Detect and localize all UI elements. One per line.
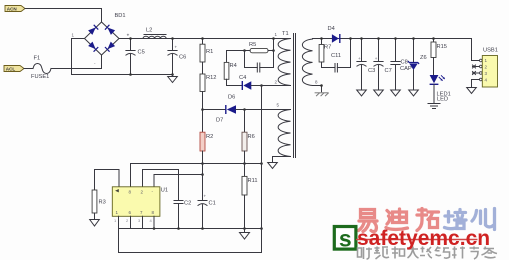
ground below bus1 xyxy=(240,229,250,240)
wire ACL to fuse xyxy=(24,68,33,70)
bus2 return loop xyxy=(119,229,262,253)
transformer T1 primary winding xyxy=(278,39,290,86)
svg-text:R2: R2 xyxy=(206,134,213,140)
junction R5 right xyxy=(272,49,275,52)
snubber resistor R4 xyxy=(224,51,244,80)
svg-text:C5: C5 xyxy=(138,50,145,56)
wire line2 U1 pin to C2 xyxy=(143,170,179,201)
svg-text:D7: D7 xyxy=(216,118,223,124)
secondary top lead to rail2 xyxy=(313,38,472,41)
svg-text:R1: R1 xyxy=(206,49,213,55)
clamp diode C4 wire xyxy=(227,79,243,85)
snubber resistor R7 xyxy=(319,39,331,63)
ground below aux winding xyxy=(268,163,278,169)
ground below C6 xyxy=(168,75,178,83)
svg-text:CAP: CAP xyxy=(400,66,412,72)
svg-text:ACN: ACN xyxy=(7,6,18,11)
svg-text:R5: R5 xyxy=(249,42,256,48)
svg-text:C1: C1 xyxy=(209,201,216,207)
bridge diode bottom-left xyxy=(88,41,98,51)
port ACL xyxy=(4,66,24,72)
svg-text:+: + xyxy=(127,33,130,38)
bus1 ground wire xyxy=(119,228,262,230)
svg-text:C4: C4 xyxy=(239,75,246,81)
bridge rectifier BD1 diamond xyxy=(85,22,120,55)
transformer T1 secondary winding xyxy=(302,39,312,86)
capacitor C1 xyxy=(198,194,216,229)
wire R15 to LED xyxy=(433,58,435,76)
watermark big text yidituo xyxy=(359,209,439,232)
transformer core xyxy=(293,34,295,158)
wire USB pin4 to ground xyxy=(472,80,473,88)
no-connect marks xyxy=(473,65,476,75)
svg-text:C6: C6 xyxy=(179,55,186,61)
port ACN xyxy=(5,6,25,12)
wire line3 U1 pin to C1 xyxy=(154,175,203,188)
svg-text:R7: R7 xyxy=(324,45,331,51)
ground below C7 xyxy=(374,90,384,96)
svg-text:C2: C2 xyxy=(184,201,191,207)
junction C5 top xyxy=(129,37,132,40)
wire R2 to C1 xyxy=(202,151,204,201)
junction snubber at rail xyxy=(272,37,275,40)
wire DC plus rail xyxy=(119,38,291,40)
svg-text:Z6: Z6 xyxy=(420,55,427,61)
junction bus1 pins xyxy=(153,227,156,230)
zener Z6 xyxy=(408,39,427,91)
bridge diode top-right xyxy=(105,25,115,35)
capacitor C2 xyxy=(174,201,191,229)
junction right vertical top xyxy=(260,84,263,87)
svg-text:safetyemc.cn: safetyemc.cn xyxy=(357,227,490,250)
output diode D4 xyxy=(328,26,340,43)
secondary bottom lead xyxy=(313,86,322,92)
clamp diode C4 xyxy=(239,75,251,90)
earth ground secondary xyxy=(315,93,329,96)
output capacitor C7 xyxy=(374,39,392,91)
svg-text:+: + xyxy=(204,194,207,199)
resistor R2 (red) xyxy=(200,132,213,151)
resistor R3 xyxy=(92,190,106,213)
svg-text:U1: U1 xyxy=(161,188,168,194)
wire D7 to aux winding xyxy=(236,109,291,111)
svg-text:D6: D6 xyxy=(228,95,235,101)
svg-text:s: s xyxy=(339,225,352,251)
svg-text:+: + xyxy=(358,56,361,61)
ground below Z6 xyxy=(409,90,419,96)
LED LED1 xyxy=(430,75,451,103)
transformer T1 aux winding xyxy=(278,110,290,157)
aux winding to ground xyxy=(273,157,291,163)
fuse F1 FUSE1 xyxy=(31,56,51,81)
ground below C3 xyxy=(357,90,367,96)
capacitor C5 xyxy=(126,33,145,75)
wire LED to ground xyxy=(433,84,435,103)
diode D7 xyxy=(216,95,236,124)
svg-text:R11: R11 xyxy=(248,178,258,184)
ground below R3 xyxy=(90,213,100,226)
snubber capacitor xyxy=(245,39,274,73)
USB pin stubs xyxy=(473,66,480,68)
junction R7 top xyxy=(320,37,323,40)
IC U1 xyxy=(112,187,168,217)
junction line1 x202 xyxy=(201,162,204,165)
svg-text:R15: R15 xyxy=(437,44,447,50)
junction secondary bottom xyxy=(320,84,323,87)
svg-text:D4: D4 xyxy=(328,26,335,32)
capacitor C6 xyxy=(168,39,186,75)
output capacitor C3 xyxy=(357,39,375,91)
snubber resistor R5 xyxy=(245,42,274,53)
ground below USB xyxy=(467,88,477,94)
wire R6 to line1 xyxy=(244,151,246,176)
junction C6 top xyxy=(171,37,174,40)
bridge diode bottom-right xyxy=(105,41,115,51)
svg-text:F1: F1 xyxy=(34,56,41,62)
resistor R15 xyxy=(431,39,447,58)
USB pin circles xyxy=(480,59,483,81)
output capacitor C8 xyxy=(391,39,412,91)
svg-text:R6: R6 xyxy=(248,134,255,140)
wire rail2 to USB xyxy=(472,39,480,61)
wire fuse to bridge bottom xyxy=(51,55,102,69)
svg-text:T1: T1 xyxy=(282,31,289,37)
resistor R12 xyxy=(200,74,216,92)
junction C6 bottom xyxy=(171,73,174,76)
inductor L2 xyxy=(143,28,166,39)
junction R5 left xyxy=(243,49,246,52)
junction D7 wire at R6 column xyxy=(243,108,246,111)
svg-text:ACL: ACL xyxy=(6,66,16,71)
wire ACN to bridge top xyxy=(25,9,102,23)
USB connector USB1 xyxy=(482,48,498,88)
wire line1 U1 pin to right vertical xyxy=(131,164,262,188)
svg-text:BD1: BD1 xyxy=(115,13,126,19)
svg-text:C11: C11 xyxy=(331,53,341,59)
resistor R11 xyxy=(242,176,258,195)
bridge diode top-left xyxy=(88,25,98,35)
wire bridge left corner to minus bus xyxy=(72,39,173,75)
svg-text:L2: L2 xyxy=(146,28,152,34)
svg-text:+: + xyxy=(175,45,178,50)
watermark safetyemc logo xyxy=(334,227,356,250)
svg-text:R4: R4 xyxy=(230,63,237,69)
right vertical drop xyxy=(261,86,263,253)
junction D7 wire left xyxy=(201,108,204,111)
watermark red line and text xyxy=(356,239,478,241)
wire R3 to U1 pin xyxy=(95,170,120,191)
junction line3 x202 xyxy=(201,173,204,176)
wire R11 to bus1 xyxy=(244,195,246,229)
wire C4 to transformer pin 2 xyxy=(251,85,290,87)
resistor R6 column wire xyxy=(244,110,246,133)
svg-text:FUSE1: FUSE1 xyxy=(31,74,49,80)
svg-text:LED: LED xyxy=(437,97,448,103)
junction line1 at right vertical xyxy=(260,162,263,165)
svg-text:C8: C8 xyxy=(401,60,408,66)
wire R12 down to R2 xyxy=(202,92,204,133)
snubber capacitor C11 xyxy=(322,39,351,73)
watermark gray chinese text xyxy=(358,247,498,260)
junction R1 top xyxy=(201,37,204,40)
resistor R1 xyxy=(200,39,213,63)
junction snubber return at rail2 xyxy=(349,37,352,40)
U1 bottom pin stubs xyxy=(118,216,120,228)
diode D7 wire xyxy=(203,109,226,111)
svg-text:R12: R12 xyxy=(206,75,216,81)
resistor R6 xyxy=(242,132,255,151)
svg-text:USB1: USB1 xyxy=(483,48,498,54)
svg-text:C3: C3 xyxy=(368,68,375,74)
svg-text:R3: R3 xyxy=(99,200,106,206)
ground below C8 xyxy=(391,90,401,96)
wire R1 to R12 xyxy=(202,62,204,74)
earth ground below LED xyxy=(428,104,440,109)
svg-text:C7: C7 xyxy=(385,68,392,74)
junction line1 at R6 column xyxy=(243,162,246,165)
svg-text:+: + xyxy=(375,56,378,61)
junction C5 bottom xyxy=(129,73,132,76)
